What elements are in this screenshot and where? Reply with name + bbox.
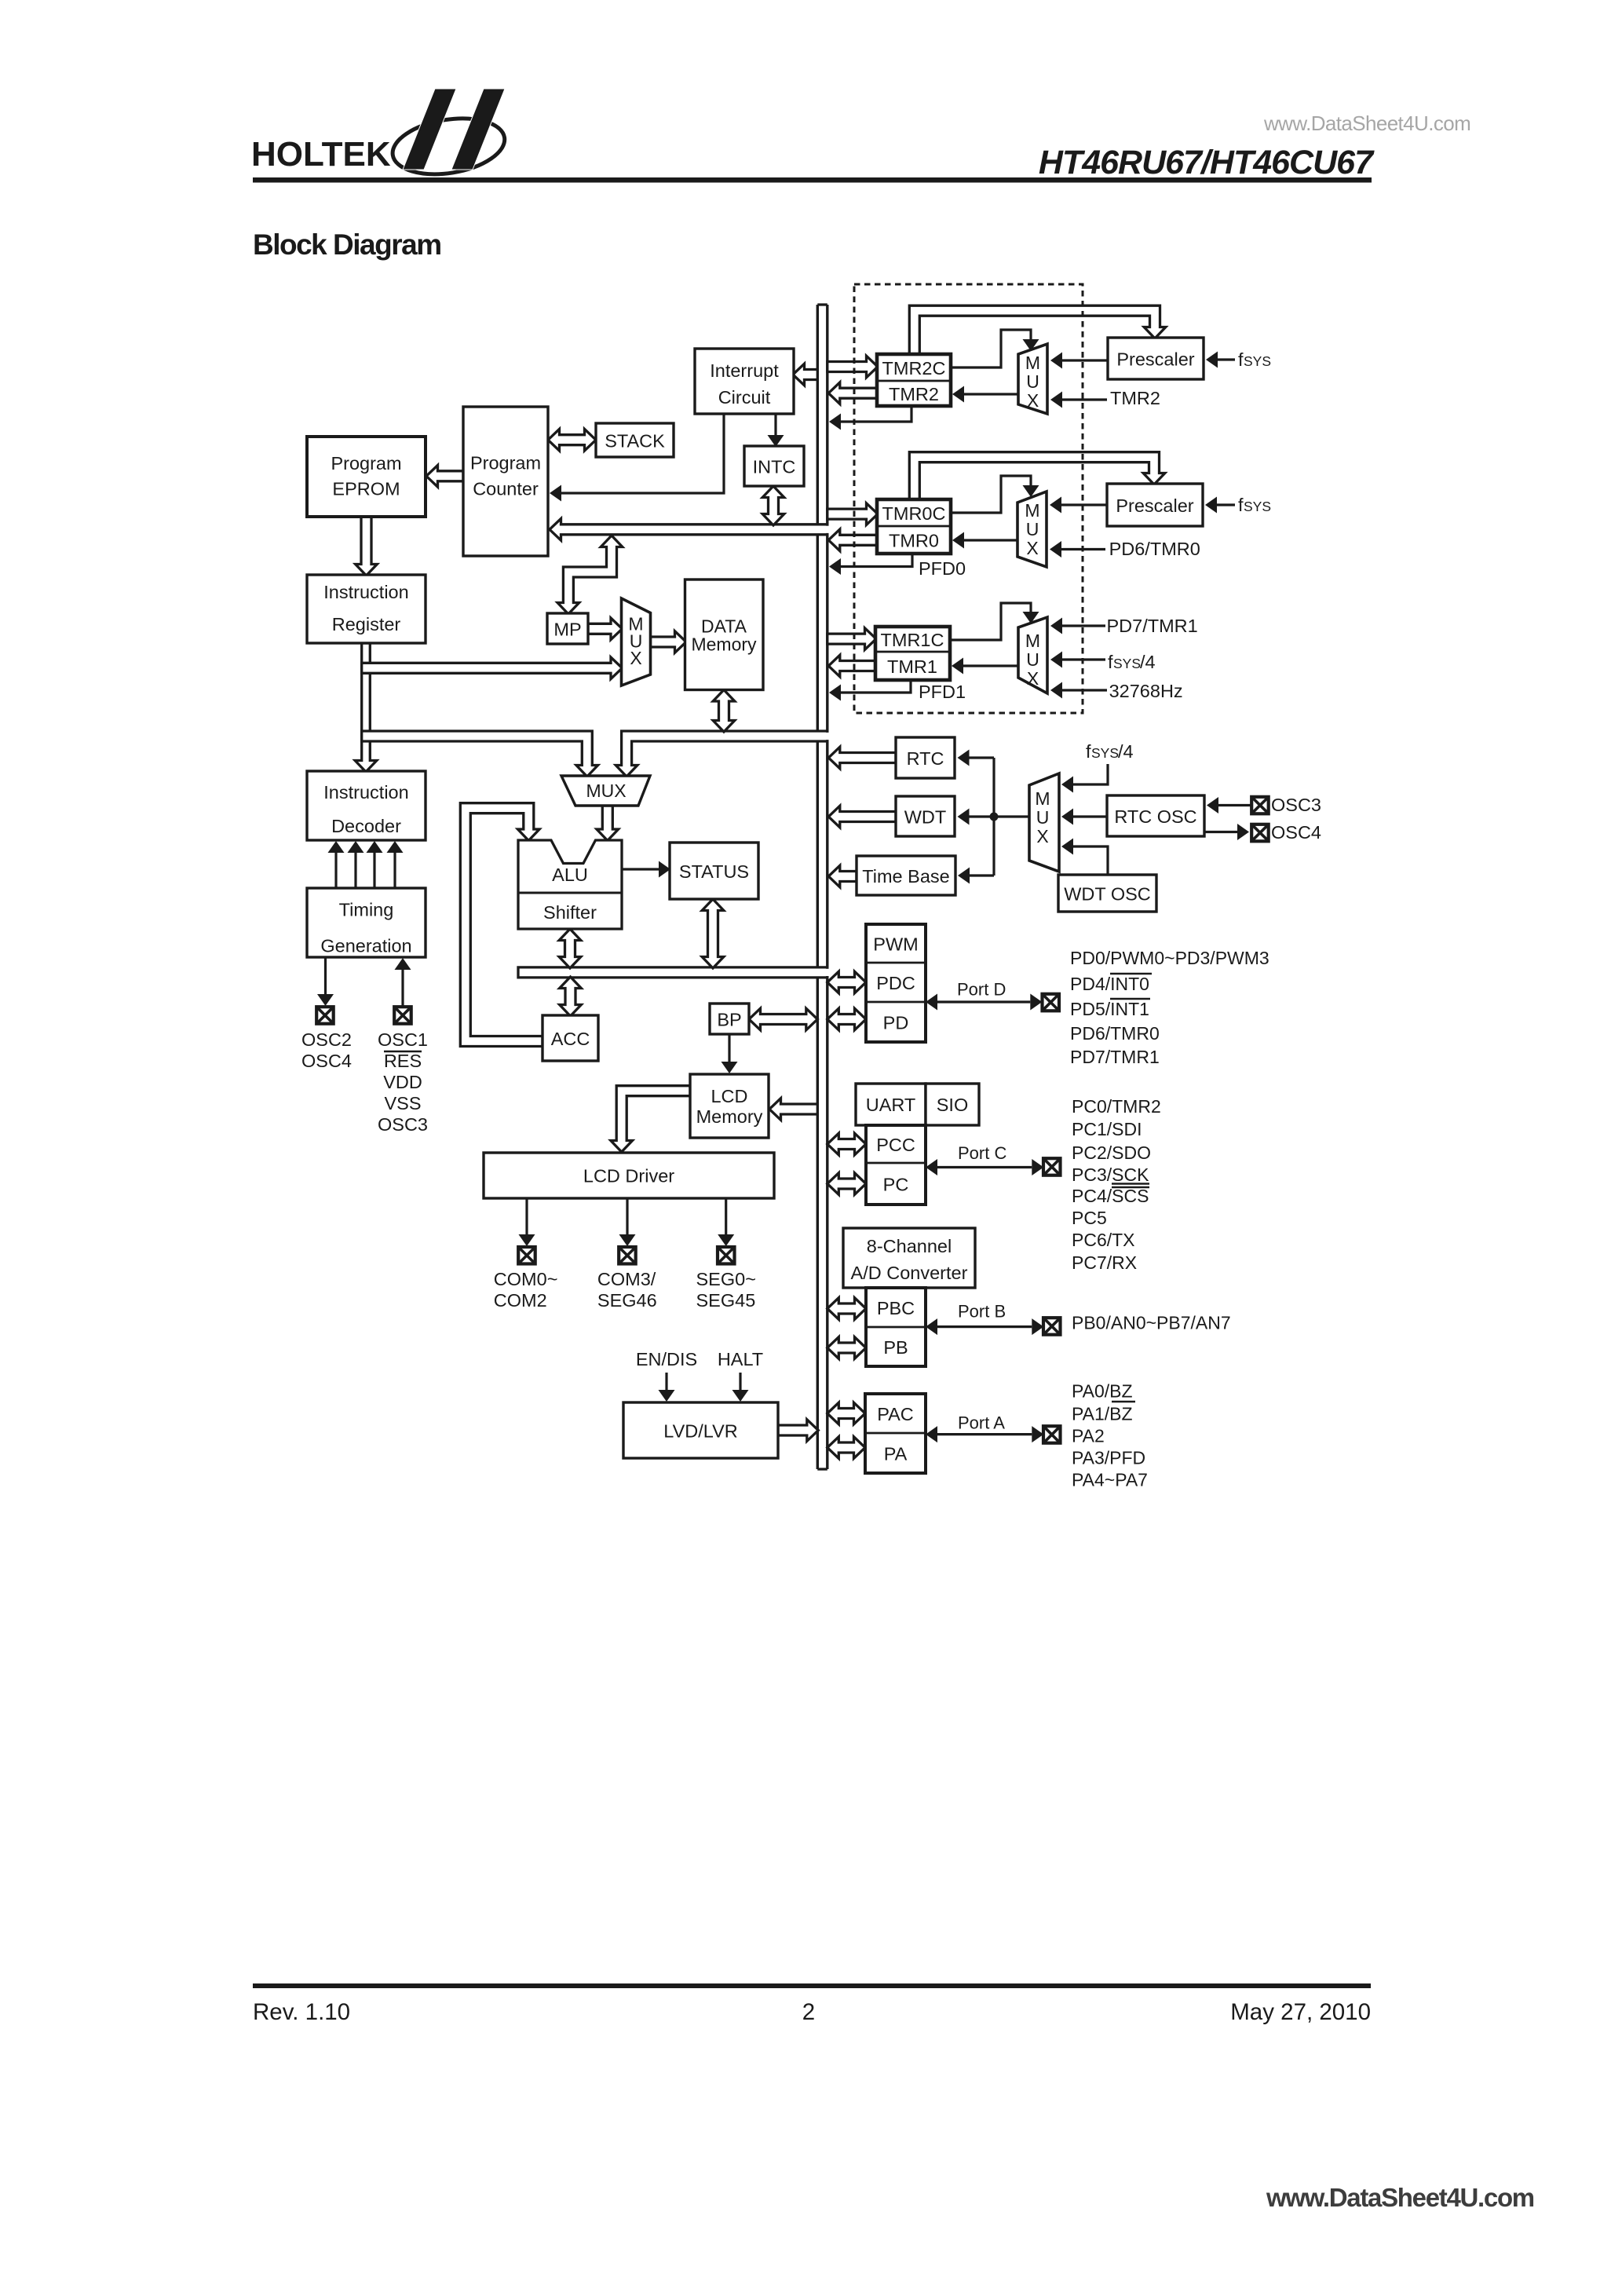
svg-text:PFD1: PFD1 xyxy=(919,682,966,702)
svg-text:Instruction: Instruction xyxy=(323,582,408,602)
box ACC xyxy=(542,1015,598,1061)
svg-text:Prescaler: Prescaler xyxy=(1116,495,1193,516)
svg-text:PD0/PWM0~PD3/PWM3: PD0/PWM0~PD3/PWM3 xyxy=(1070,948,1269,968)
svg-text:f: f xyxy=(1238,349,1244,370)
svg-text:SEG46: SEG46 xyxy=(597,1290,657,1311)
footer Rev xyxy=(253,1999,350,2025)
svg-text:Time Base: Time Base xyxy=(862,866,949,887)
registers PBC PB xyxy=(866,1288,926,1366)
timing arrows to Instruction Decoder xyxy=(328,841,404,888)
label HALT xyxy=(718,1349,763,1369)
svg-text:PD6/TMR0: PD6/TMR0 xyxy=(1070,1023,1160,1044)
wire ALU to STATUS xyxy=(622,861,670,878)
svg-text:OSC3: OSC3 xyxy=(1271,795,1321,815)
svg-text:HOLTEK: HOLTEK xyxy=(251,135,391,174)
svg-text:SYS: SYS xyxy=(1244,499,1271,514)
label 32768Hz xyxy=(1109,681,1183,701)
svg-text:PD6/TMR0: PD6/TMR0 xyxy=(1109,539,1200,559)
svg-text:TMR2C: TMR2C xyxy=(882,358,946,378)
svg-text:Decoder: Decoder xyxy=(331,816,401,836)
svg-text:PD7/TMR1: PD7/TMR1 xyxy=(1070,1047,1160,1067)
wire OSC1 pad to Timing Generation xyxy=(395,958,411,1007)
svg-text:TMR1: TMR1 xyxy=(887,656,937,677)
wire LCD Driver to COM0 pad xyxy=(519,1198,535,1246)
Holtek logo text xyxy=(251,135,391,174)
wire fsys to Prescaler 2 xyxy=(1205,497,1235,514)
bus Instruction Register to address MUX xyxy=(362,657,623,679)
label OSC3 xyxy=(1271,795,1321,815)
pad Port A xyxy=(1043,1426,1061,1443)
label EN/DIS xyxy=(636,1349,697,1369)
title Block Diagram xyxy=(253,229,441,261)
bus spine to central MUX right input xyxy=(616,731,829,777)
svg-text:HALT: HALT xyxy=(718,1349,763,1369)
box SIO xyxy=(926,1084,979,1125)
shape ALU with Shifter xyxy=(518,840,622,929)
svg-text:www.DataSheet4U.com: www.DataSheet4U.com xyxy=(1263,112,1470,135)
pad COM0-COM2 xyxy=(518,1247,535,1264)
wire TMR0C to MUX select xyxy=(951,476,1039,513)
box Prescaler 2 xyxy=(1107,484,1203,526)
svg-text:OSC4: OSC4 xyxy=(1271,822,1321,843)
label COM3/SEG46 xyxy=(597,1269,657,1311)
svg-text:EPROM: EPROM xyxy=(332,479,400,499)
box UART xyxy=(856,1084,926,1125)
wire Prescaler 2 to TMR0 MUX xyxy=(1050,497,1107,514)
svg-text:RTC OSC: RTC OSC xyxy=(1114,806,1196,827)
svg-text:PA: PA xyxy=(884,1444,908,1464)
mux TMR0 MUX xyxy=(1017,492,1047,567)
svg-text:OSC1: OSC1 xyxy=(378,1029,428,1050)
hollow arrow spine to PC port xyxy=(827,1173,866,1195)
hollow arrow bus to Program Counter xyxy=(550,519,829,541)
label Port C xyxy=(958,1143,1006,1163)
wire Port D xyxy=(926,994,1042,1011)
svg-text:U: U xyxy=(1036,807,1050,828)
label fsys 2 xyxy=(1238,495,1271,515)
svg-text:TMR0: TMR0 xyxy=(889,531,939,551)
wire PD6/TMR0 input xyxy=(1050,541,1105,558)
label COM0-COM2 xyxy=(494,1269,558,1311)
svg-text:U: U xyxy=(1026,371,1039,392)
svg-text:LCD Driver: LCD Driver xyxy=(583,1166,674,1186)
svg-text:TMR2: TMR2 xyxy=(889,384,939,404)
wire fsys/4 to RTC MUX xyxy=(1061,764,1108,793)
label PFD1 xyxy=(919,682,966,702)
svg-text:PC5: PC5 xyxy=(1072,1208,1107,1228)
svg-text:WDT OSC: WDT OSC xyxy=(1064,884,1151,905)
box Instruction Decoder xyxy=(307,771,426,840)
wire TMR2 overflow to spine xyxy=(829,406,911,430)
hollow arrow LVD/LVR to spine xyxy=(778,1420,818,1442)
svg-text:PWM: PWM xyxy=(873,934,918,955)
svg-text:STACK: STACK xyxy=(605,431,665,452)
mux TMR2 MUX xyxy=(1018,344,1047,414)
svg-text:Block Diagram: Block Diagram xyxy=(253,229,441,261)
box Timing Generation xyxy=(307,888,426,957)
label SEG0-SEG45 xyxy=(696,1269,756,1311)
svg-text:SEG0~: SEG0~ xyxy=(696,1269,756,1289)
hollow arrow spine to TMR0C xyxy=(827,503,878,525)
bus Instruction Register to central MUX xyxy=(362,731,598,777)
wire TMR2 external input xyxy=(1050,392,1107,408)
hollow arrow Instruction Register to Instruction Decoder xyxy=(355,643,377,772)
svg-text:Memory: Memory xyxy=(696,1106,763,1127)
registers TMR0C TMR0 xyxy=(877,499,951,554)
box 8-Channel A/D Converter xyxy=(843,1228,975,1288)
hollow arrow spine to PCC xyxy=(827,1133,866,1155)
hollow arrow Time Base to spine xyxy=(828,865,857,887)
label fsys/4 rtc xyxy=(1086,741,1134,762)
box BP xyxy=(710,1004,749,1034)
hollow arrow STATUS to data bus xyxy=(702,899,724,968)
svg-text:f: f xyxy=(1238,495,1244,515)
box Prescaler 1 xyxy=(1108,338,1204,379)
box STATUS xyxy=(670,843,758,899)
bus LCD Memory to LCD Driver xyxy=(611,1086,690,1152)
hollow arrow RTC to spine xyxy=(828,747,896,769)
pad SEG0-SEG45 xyxy=(718,1247,735,1264)
registers PAC PA xyxy=(865,1394,926,1473)
svg-text:INTC: INTC xyxy=(753,457,796,477)
svg-text:MP: MP xyxy=(553,620,581,640)
bus TMR2C to Prescaler xyxy=(909,305,1166,354)
pad Port B xyxy=(1043,1318,1061,1335)
svg-text:OSC3: OSC3 xyxy=(378,1114,428,1135)
box WDT OSC xyxy=(1058,875,1156,912)
mux central MUX xyxy=(561,776,650,806)
svg-text:PAC: PAC xyxy=(877,1404,914,1424)
svg-text:VDD: VDD xyxy=(383,1072,422,1092)
svg-text:COM0~: COM0~ xyxy=(494,1269,558,1289)
svg-text:M: M xyxy=(1035,788,1050,809)
svg-text:Instruction: Instruction xyxy=(323,782,408,803)
svg-text:TMR0C: TMR0C xyxy=(882,503,946,524)
svg-text:LCD: LCD xyxy=(711,1086,747,1106)
hollow arrow DATA Memory to bus xyxy=(713,690,735,733)
pad OSC1 xyxy=(394,1007,411,1024)
box DATA Memory xyxy=(685,579,764,690)
hollow arrow data bus to ACC xyxy=(560,977,582,1016)
svg-text:X: X xyxy=(1027,668,1039,689)
svg-text:32768Hz: 32768Hz xyxy=(1109,681,1183,701)
hollow arrow Shifter to data bus xyxy=(559,929,581,968)
svg-text:PD7/TMR1: PD7/TMR1 xyxy=(1107,616,1198,636)
svg-text:PA1/BZ: PA1/BZ xyxy=(1072,1404,1133,1424)
svg-text:U: U xyxy=(1026,519,1039,539)
svg-text:Port B: Port B xyxy=(958,1302,1006,1322)
box LCD Driver xyxy=(484,1153,774,1198)
footer page number xyxy=(802,1999,815,2025)
label PD7/TMR1 xyxy=(1107,616,1198,636)
svg-text:Rev. 1.10: Rev. 1.10 xyxy=(253,1999,350,2025)
hollow arrow Program Counter to STACK xyxy=(548,429,596,451)
svg-text:A/D Converter: A/D Converter xyxy=(851,1263,968,1283)
bus ACC feedback to ALU xyxy=(460,803,542,1047)
wire RTC OSC to RTC MUX xyxy=(1061,809,1107,825)
svg-text:PC2/SDO: PC2/SDO xyxy=(1072,1143,1151,1163)
footer rule xyxy=(253,1983,1371,1988)
label OSC1 RES VDD VSS OSC3 xyxy=(378,1029,428,1135)
wire LCD Driver to COM3 pad xyxy=(619,1198,636,1246)
svg-text:Prescaler: Prescaler xyxy=(1116,349,1194,370)
box Program EPROM xyxy=(307,437,426,517)
bus PC-bus branch to MP xyxy=(557,536,623,614)
svg-text:X: X xyxy=(630,648,641,668)
wire PFD1 to spine xyxy=(829,680,911,701)
wire HALT to LVD/LVR xyxy=(732,1373,749,1402)
hollow arrow central MUX to ALU xyxy=(597,806,619,841)
svg-text:PC3/SCK: PC3/SCK xyxy=(1072,1164,1149,1185)
label Port D xyxy=(957,980,1006,1000)
svg-text:UART: UART xyxy=(866,1095,916,1115)
svg-text:VSS: VSS xyxy=(384,1093,421,1113)
hollow arrow spine to PAC xyxy=(827,1402,865,1424)
svg-text:X: X xyxy=(1036,826,1048,846)
wire Port A xyxy=(926,1426,1043,1442)
part number HT46RU67/HT46CU67 xyxy=(1039,144,1375,181)
svg-text:Port A: Port A xyxy=(958,1413,1005,1433)
mux RTC MUX xyxy=(1029,773,1059,872)
hollow arrow spine to LCD Memory xyxy=(769,1099,817,1121)
pad OSC4 xyxy=(1251,824,1269,842)
wire EN/DIS to LVD/LVR xyxy=(659,1373,675,1402)
svg-text:MUX: MUX xyxy=(586,781,626,801)
svg-text:Port D: Port D xyxy=(957,980,1006,1000)
hollow arrow spine to PB xyxy=(827,1337,866,1359)
registers PCC PC xyxy=(866,1125,926,1205)
svg-text:PFD0: PFD0 xyxy=(919,558,966,579)
wire RTC OSC to OSC4 xyxy=(1204,824,1249,840)
svg-text:PC: PC xyxy=(883,1175,909,1195)
box INTC xyxy=(744,446,804,486)
wire LCD Driver to SEG0 pad xyxy=(718,1198,734,1246)
svg-text:PC4/SCS: PC4/SCS xyxy=(1072,1186,1149,1206)
svg-text:PD: PD xyxy=(883,1013,909,1033)
svg-text:TMR1C: TMR1C xyxy=(881,630,944,650)
svg-text:PB0/AN0~PB7/AN7: PB0/AN0~PB7/AN7 xyxy=(1072,1313,1231,1333)
hollow arrow spine to TMR2C xyxy=(827,356,878,378)
svg-text:COM3/: COM3/ xyxy=(597,1269,656,1289)
svg-text:2: 2 xyxy=(802,1999,815,2025)
box LVD/LVR xyxy=(623,1402,778,1458)
svg-text:RTC: RTC xyxy=(907,748,944,769)
svg-text:HT46RU67/HT46CU67: HT46RU67/HT46CU67 xyxy=(1039,144,1375,181)
wire TMR2 MUX to TMR2 xyxy=(952,386,1018,403)
hollow arrow MP to address MUX xyxy=(588,618,623,640)
pad Port C xyxy=(1043,1158,1061,1175)
svg-text:PBC: PBC xyxy=(877,1298,915,1318)
pad Port D xyxy=(1043,994,1060,1011)
svg-text:LVD/LVR: LVD/LVR xyxy=(663,1421,737,1442)
box Time Base xyxy=(857,856,955,895)
wire PD7/TMR1 input xyxy=(1050,618,1105,634)
svg-text:PC6/TX: PC6/TX xyxy=(1072,1230,1135,1250)
svg-text:SEG45: SEG45 xyxy=(696,1290,756,1311)
box Interrupt Circuit xyxy=(695,349,794,414)
svg-text:f: f xyxy=(1108,652,1113,672)
wire TMR0 MUX to TMR0 xyxy=(952,532,1017,549)
wire TMR1C to MUX select xyxy=(950,603,1039,640)
wire Timing Generation to OSC2 pad xyxy=(317,957,334,1006)
svg-text:/4: /4 xyxy=(1140,652,1156,672)
box LCD Memory xyxy=(690,1074,769,1138)
svg-text:Interrupt: Interrupt xyxy=(710,360,779,381)
box STACK xyxy=(596,423,674,457)
pad OSC2 xyxy=(316,1007,334,1024)
label PFD0 xyxy=(919,558,966,579)
hollow arrow spine to PDC xyxy=(827,971,866,993)
label OSC4 xyxy=(1271,822,1321,843)
svg-text:PB: PB xyxy=(883,1337,908,1358)
svg-text:TMR2: TMR2 xyxy=(1110,388,1160,408)
svg-text:/4: /4 xyxy=(1118,741,1134,762)
svg-text:SYS: SYS xyxy=(1113,656,1141,671)
box Instruction Register xyxy=(307,575,426,643)
wire Interrupt Circuit to Program Counter xyxy=(550,414,724,502)
svg-text:ALU: ALU xyxy=(552,865,588,885)
svg-text:M: M xyxy=(1025,500,1039,521)
svg-text:PD4/INT0: PD4/INT0 xyxy=(1070,974,1149,994)
dashed timer block boundary xyxy=(854,284,1083,713)
svg-text:Timing: Timing xyxy=(339,900,394,920)
wire OSC3 to RTC OSC xyxy=(1207,797,1251,813)
wire Prescaler to TMR2 MUX xyxy=(1050,353,1108,369)
label Port D pins xyxy=(1070,948,1269,1067)
svg-text:X: X xyxy=(1026,538,1038,558)
svg-text:OSC2: OSC2 xyxy=(301,1029,352,1050)
bus spine vertical xyxy=(817,305,827,1469)
svg-text:M: M xyxy=(1025,631,1040,651)
svg-text:Circuit: Circuit xyxy=(718,387,771,408)
svg-text:PDC: PDC xyxy=(876,973,915,993)
wire RTC MUX output branch xyxy=(958,750,1030,884)
wire Port C xyxy=(926,1159,1043,1175)
svg-text:PD5/INT1: PD5/INT1 xyxy=(1070,999,1149,1019)
wire TMR1 MUX to TMR1 xyxy=(952,658,1018,675)
pad COM3/SEG46 xyxy=(619,1247,636,1264)
Holtek logo emblem xyxy=(389,89,509,181)
svg-text:RES: RES xyxy=(384,1051,422,1071)
svg-text:U: U xyxy=(1026,649,1039,670)
svg-text:EN/DIS: EN/DIS xyxy=(636,1349,697,1369)
svg-text:ACC: ACC xyxy=(551,1029,590,1049)
svg-text:SYS: SYS xyxy=(1091,745,1119,761)
svg-text:PC0/TMR2: PC0/TMR2 xyxy=(1072,1096,1161,1117)
hollow arrow TMR0 to spine xyxy=(828,529,877,551)
hollow arrow address MUX to DATA Memory xyxy=(651,631,687,653)
svg-text:SYS: SYS xyxy=(1244,353,1271,369)
label Port A xyxy=(958,1413,1005,1433)
hollow arrow Program Counter to Program EPROM xyxy=(426,466,463,488)
box Program Counter xyxy=(463,407,548,556)
label Port A pins xyxy=(1072,1381,1148,1490)
hollow arrow spine to Interrupt Circuit xyxy=(793,364,817,386)
svg-text:PA4~PA7: PA4~PA7 xyxy=(1072,1470,1148,1490)
svg-text:PA2: PA2 xyxy=(1072,1426,1105,1446)
svg-text:PA3/PFD: PA3/PFD xyxy=(1072,1448,1145,1468)
hollow arrow spine to TMR1C xyxy=(827,628,876,650)
bus TMR0C to Prescaler 2 xyxy=(909,452,1165,499)
svg-text:f: f xyxy=(1086,741,1091,762)
wire fsys to Prescaler 1 xyxy=(1206,352,1235,368)
wire 32768Hz input xyxy=(1050,682,1107,699)
mux address MUX xyxy=(622,598,651,686)
label fsys/4 tmr1 xyxy=(1108,652,1156,672)
svg-text:WDT: WDT xyxy=(904,807,947,828)
box WDT xyxy=(896,796,955,836)
wire WDT OSC to RTC MUX xyxy=(1061,839,1108,876)
svg-text:PC7/RX: PC7/RX xyxy=(1072,1252,1137,1273)
svg-text:Memory: Memory xyxy=(691,634,757,655)
svg-text:Register: Register xyxy=(332,614,401,634)
wire fsys/4 input to TMR1 MUX xyxy=(1050,652,1105,668)
svg-text:PCC: PCC xyxy=(876,1135,915,1155)
svg-text:STATUS: STATUS xyxy=(679,861,749,882)
svg-text:COM2: COM2 xyxy=(494,1290,547,1311)
label PD6/TMR0 xyxy=(1109,539,1200,559)
hollow arrow Program EPROM to Instruction Register xyxy=(356,517,378,576)
box MP xyxy=(547,613,588,644)
box RTC xyxy=(896,737,955,778)
wire BP to LCD Memory xyxy=(721,1034,738,1073)
label Port B pins xyxy=(1072,1313,1231,1333)
registers PWM PDC PD xyxy=(866,924,926,1042)
pad OSC3 xyxy=(1251,797,1269,814)
registers TMR1C TMR1 xyxy=(875,627,950,680)
wire PFD0 to spine xyxy=(829,554,912,575)
label Port B xyxy=(958,1302,1006,1322)
hollow arrow spine to PA xyxy=(827,1437,865,1459)
junction dot xyxy=(990,813,999,821)
svg-text:May 27, 2010: May 27, 2010 xyxy=(1230,1999,1371,2025)
svg-text:SIO: SIO xyxy=(937,1095,968,1115)
header rule xyxy=(253,177,1372,183)
mux TMR1 MUX xyxy=(1018,617,1047,693)
svg-text:M: M xyxy=(1025,353,1040,373)
hollow arrow spine to PBC xyxy=(827,1298,866,1320)
footer date xyxy=(1230,1999,1371,2025)
svg-text:www.DataSheet4U.com: www.DataSheet4U.com xyxy=(1266,2183,1534,2212)
svg-text:OSC4: OSC4 xyxy=(301,1051,352,1071)
lower data bus rail xyxy=(518,967,829,978)
svg-text:Program: Program xyxy=(470,453,541,473)
label fsys 1 xyxy=(1238,349,1271,370)
hollow arrow TMR1 to spine xyxy=(828,655,875,677)
watermark bottom www.DataSheet4U.com xyxy=(1266,2183,1534,2212)
wire Interrupt Circuit to INTC xyxy=(768,414,784,447)
svg-text:PC1/SDI: PC1/SDI xyxy=(1072,1119,1142,1139)
svg-text:Shifter: Shifter xyxy=(543,902,597,923)
svg-text:X: X xyxy=(1027,390,1039,411)
hollow arrow TMR2 to spine xyxy=(828,382,877,404)
hollow arrow spine to PD xyxy=(827,1008,866,1030)
hollow arrow INTC to bus xyxy=(762,486,784,525)
svg-text:PA0/BZ: PA0/BZ xyxy=(1072,1381,1133,1402)
svg-text:BP: BP xyxy=(717,1010,741,1030)
label TMR2 input xyxy=(1110,388,1160,408)
svg-text:8-Channel: 8-Channel xyxy=(867,1236,952,1256)
registers TMR2C TMR2 xyxy=(877,354,951,406)
wire Port B xyxy=(926,1318,1043,1335)
watermark top www.DataSheet4U.com xyxy=(1263,112,1470,135)
wire TMR2C to MUX select xyxy=(951,330,1039,367)
hollow arrow BP to spine xyxy=(749,1008,817,1030)
svg-text:Counter: Counter xyxy=(473,479,539,499)
svg-text:Port C: Port C xyxy=(958,1143,1006,1163)
box RTC OSC xyxy=(1107,795,1204,836)
svg-text:Program: Program xyxy=(331,453,401,473)
